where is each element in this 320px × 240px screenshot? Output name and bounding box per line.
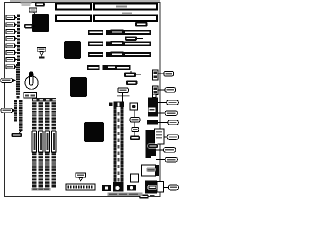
panel label 7 <box>6 57 17 61</box>
keyboard callout 2 <box>165 111 177 116</box>
chipset chip U3 <box>70 77 87 97</box>
CPU chip U1 <box>32 14 49 32</box>
SIMM label windows <box>32 131 56 152</box>
port white box <box>155 129 164 144</box>
fan jumper callout <box>37 48 46 59</box>
ISA slot 2 right segment <box>94 15 157 21</box>
bottom caption bar <box>108 192 143 196</box>
panel label 8 <box>6 65 17 69</box>
keyboard connector <box>152 94 156 97</box>
callout pill A <box>124 72 136 77</box>
speaker component <box>130 103 138 110</box>
port pill inside 2 <box>151 156 157 159</box>
DIMM strip B <box>14 100 17 122</box>
ISA slot 1 left segment <box>56 4 91 10</box>
power connector black <box>145 180 157 193</box>
PCI slot 2 pill <box>110 41 124 46</box>
memory callout pill left edge <box>1 108 13 113</box>
strips callout pill <box>12 133 23 137</box>
port callout 3 <box>165 157 177 162</box>
mid pill 1 <box>130 118 140 122</box>
port pill inside <box>148 144 158 149</box>
DIMM strip C <box>19 100 22 131</box>
mouse callout <box>168 120 179 125</box>
board background <box>0 0 181 200</box>
IDE riser right rail <box>121 107 124 182</box>
slot 2 callout pill <box>135 22 148 27</box>
USB header R1 <box>153 70 159 80</box>
cap left <box>102 185 111 191</box>
front panel header strip <box>17 15 20 69</box>
PCI slot 4 pill <box>107 65 117 70</box>
floppy connector white <box>142 165 156 176</box>
label text lines top-left <box>21 2 32 3</box>
small label box to CPU <box>29 8 37 12</box>
panel label 3 <box>6 30 17 34</box>
board outline <box>5 3 161 197</box>
R1 callout <box>164 71 174 76</box>
callout pill B <box>126 80 137 85</box>
PCI slot 4 (short) <box>87 65 131 70</box>
mouse connector <box>147 120 158 125</box>
mid pill column line <box>134 110 136 136</box>
battery rod <box>29 72 32 85</box>
SIMM bank top caption <box>32 98 56 102</box>
slot 1 label text <box>116 5 127 7</box>
callout pill C <box>118 88 129 93</box>
slot 2 label text above <box>122 12 132 14</box>
pill J above CPU <box>35 2 45 6</box>
small cap square <box>109 103 112 107</box>
panel label 2 <box>6 23 17 27</box>
serial/parallel port stack <box>146 130 156 158</box>
bottom black pill <box>139 195 149 199</box>
bottom pin header <box>66 184 95 190</box>
pill left of CPU <box>24 24 33 28</box>
ISA slot 2 left segment <box>56 15 91 21</box>
power callout <box>168 185 178 190</box>
jumper mark below power strip <box>17 96 20 99</box>
top gray strip <box>10 0 160 2</box>
chipset chip U2 <box>64 41 81 59</box>
small white box left <box>131 174 139 182</box>
ISA slot 1 right segment <box>94 4 157 10</box>
PCI slot 2 <box>88 41 151 46</box>
R2 callout <box>165 88 176 93</box>
SIMM socket 1 <box>32 102 37 188</box>
panel label 1 <box>6 15 17 19</box>
port callout 2 <box>164 148 176 153</box>
IDE riser center text <box>118 112 120 115</box>
battery circle <box>25 76 38 89</box>
panel label 5 <box>6 44 17 48</box>
IDE riser foot <box>113 182 124 192</box>
battery label box <box>24 93 37 99</box>
power callout <box>1 78 13 82</box>
riser text above <box>117 95 129 97</box>
SIMM socket 2 <box>38 102 43 188</box>
keyboard callout 1 <box>167 100 179 105</box>
power connector strip <box>16 64 20 95</box>
IDE riser connector top box <box>113 102 123 108</box>
USB header R2 <box>153 86 159 95</box>
cap right <box>127 185 136 191</box>
SIMM socket 4 <box>51 102 56 188</box>
IDE riser left rail <box>114 107 117 182</box>
SIMM caption bar <box>32 188 51 191</box>
panel label 4 <box>6 36 17 40</box>
PCI slot 3 <box>88 52 151 57</box>
PCI slot 1 callout pill below <box>125 36 137 40</box>
PCI slot 3 pill <box>110 52 124 57</box>
panel label 6 <box>6 51 17 55</box>
SIMM socket 3 <box>45 102 50 188</box>
bottom header callout <box>76 173 86 177</box>
PCI slot 1 <box>88 30 151 35</box>
I/O chip U4 <box>84 122 104 142</box>
port callout 1 <box>167 135 178 140</box>
mid pill 2 <box>132 127 139 131</box>
mid pill 3 <box>130 136 140 141</box>
PCI slot 1 pill <box>110 29 124 34</box>
